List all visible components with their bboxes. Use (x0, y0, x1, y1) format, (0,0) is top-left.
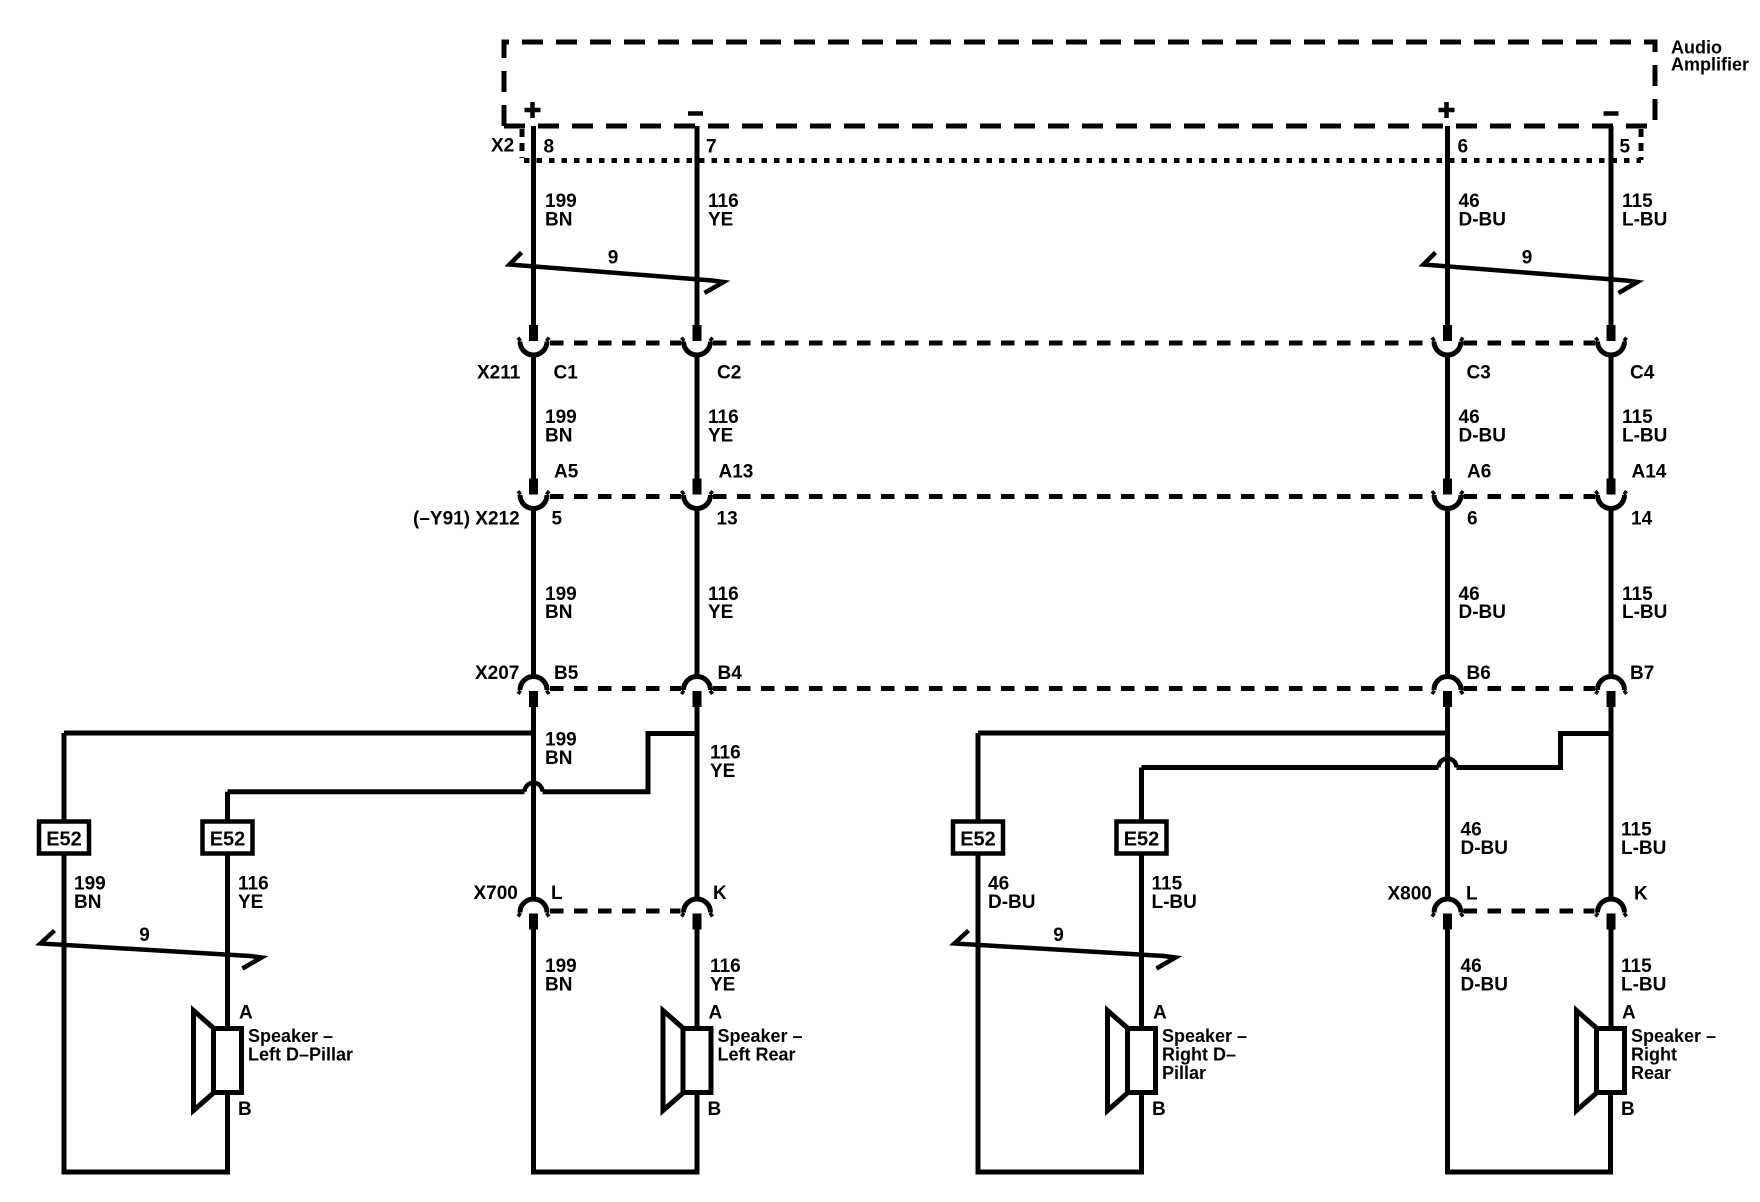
svg-text:A14: A14 (1632, 462, 1667, 483)
svg-text:E52: E52 (46, 829, 82, 851)
svg-text:A: A (1153, 1003, 1167, 1024)
svg-text:B: B (708, 1099, 722, 1120)
svg-text:A5: A5 (554, 462, 579, 483)
svg-text:9: 9 (608, 248, 619, 269)
svg-text:L: L (551, 883, 563, 904)
svg-text:D-BU: D-BU (1459, 426, 1507, 447)
svg-text:Left Rear: Left Rear (718, 1045, 796, 1065)
svg-text:A: A (239, 1003, 253, 1024)
svg-text:9: 9 (1053, 925, 1064, 946)
svg-text:E52: E52 (210, 829, 246, 851)
svg-text:X700: X700 (474, 883, 518, 904)
svg-text:X2: X2 (491, 136, 514, 157)
svg-text:Rear: Rear (1631, 1063, 1671, 1083)
svg-text:(–Y91) X212: (–Y91) X212 (413, 509, 520, 530)
svg-text:9: 9 (139, 925, 150, 946)
svg-text:8: 8 (544, 137, 555, 158)
svg-text:B: B (238, 1099, 252, 1120)
svg-text:D-BU: D-BU (1459, 210, 1507, 231)
svg-text:BN: BN (545, 748, 572, 769)
svg-text:K: K (713, 883, 727, 904)
svg-text:YE: YE (710, 975, 735, 996)
svg-text:BN: BN (545, 210, 572, 231)
svg-text:B4: B4 (718, 663, 743, 684)
svg-text:YE: YE (708, 210, 733, 231)
svg-text:YE: YE (710, 761, 735, 782)
svg-text:5: 5 (552, 509, 563, 530)
svg-text:C4: C4 (1630, 363, 1655, 384)
svg-text:BN: BN (545, 426, 572, 447)
svg-text:YE: YE (238, 892, 263, 913)
svg-text:BN: BN (74, 892, 101, 913)
svg-text:6: 6 (1458, 137, 1469, 158)
svg-text:Speaker –: Speaker – (248, 1026, 333, 1046)
svg-text:Amplifier: Amplifier (1671, 55, 1749, 75)
svg-text:A6: A6 (1467, 462, 1491, 483)
svg-text:L-BU: L-BU (1622, 426, 1667, 447)
svg-text:B5: B5 (554, 663, 579, 684)
svg-text:7: 7 (706, 137, 717, 158)
svg-text:Speaker –: Speaker – (1631, 1026, 1716, 1046)
svg-text:D-BU: D-BU (1459, 602, 1507, 623)
svg-text:X207: X207 (475, 663, 519, 684)
svg-text:L-BU: L-BU (1621, 975, 1666, 996)
svg-text:Right: Right (1631, 1045, 1677, 1065)
svg-text:B: B (1621, 1099, 1635, 1120)
svg-text:X211: X211 (477, 363, 521, 384)
svg-text:E52: E52 (1124, 829, 1160, 851)
svg-text:C2: C2 (717, 363, 741, 384)
svg-text:A13: A13 (719, 462, 754, 483)
svg-text:D-BU: D-BU (1461, 838, 1509, 859)
svg-text:6: 6 (1467, 509, 1478, 530)
svg-text:C3: C3 (1467, 363, 1491, 384)
svg-text:Speaker –: Speaker – (718, 1026, 803, 1046)
svg-text:Pillar: Pillar (1162, 1063, 1206, 1083)
svg-text:YE: YE (708, 602, 733, 623)
svg-text:C1: C1 (554, 363, 579, 384)
svg-text:D-BU: D-BU (988, 892, 1036, 913)
svg-text:9: 9 (1522, 248, 1533, 269)
svg-text:X800: X800 (1388, 884, 1432, 905)
svg-text:B6: B6 (1467, 663, 1491, 684)
svg-text:Left D–Pillar: Left D–Pillar (248, 1045, 353, 1065)
svg-text:14: 14 (1631, 509, 1653, 530)
svg-text:A: A (1622, 1003, 1636, 1024)
svg-text:L-BU: L-BU (1621, 838, 1666, 859)
svg-text:D-BU: D-BU (1461, 975, 1509, 996)
svg-text:L-BU: L-BU (1152, 892, 1197, 913)
svg-text:L: L (1466, 884, 1478, 905)
svg-text:Right D–: Right D– (1162, 1045, 1236, 1065)
svg-text:L-BU: L-BU (1622, 210, 1667, 231)
svg-text:B7: B7 (1630, 663, 1654, 684)
svg-text:Speaker –: Speaker – (1162, 1026, 1247, 1046)
svg-text:BN: BN (545, 975, 572, 996)
svg-text:BN: BN (545, 602, 572, 623)
svg-text:5: 5 (1620, 137, 1631, 158)
svg-text:K: K (1634, 884, 1648, 905)
svg-text:B: B (1152, 1099, 1166, 1120)
svg-text:13: 13 (717, 509, 738, 530)
svg-text:A: A (709, 1003, 723, 1024)
svg-text:L-BU: L-BU (1622, 602, 1667, 623)
svg-text:E52: E52 (960, 829, 996, 851)
svg-text:YE: YE (708, 426, 733, 447)
